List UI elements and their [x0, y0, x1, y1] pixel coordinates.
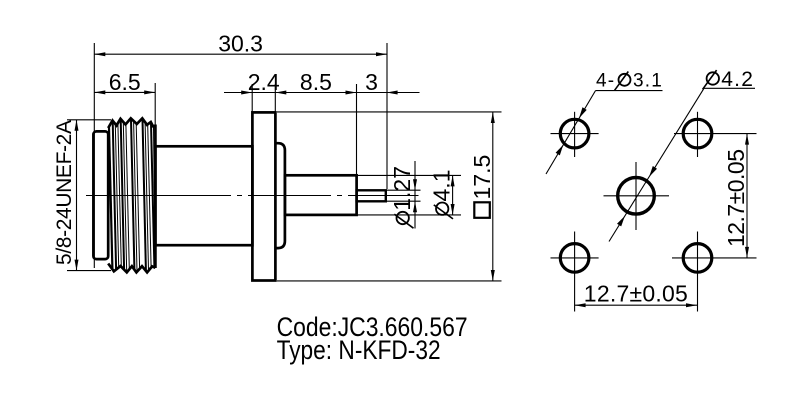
dimension 2.4 / 8.5 / 3 [224, 69, 420, 95]
label phi4.2 leader [609, 68, 755, 242]
svg-text:3: 3 [365, 69, 378, 95]
wire extension line x=387 [386, 43, 388, 189]
shoulder [275, 143, 285, 248]
node TL cross [551, 133, 599, 135]
dimension phi4.1 [357, 170, 461, 219]
dimension 6.5 [94, 69, 155, 95]
wire extension line x=275.3 [274, 84, 276, 112]
body cylinder [155, 146, 252, 245]
dimension square 17.5 [277, 112, 502, 281]
dimension 30.3 [94, 30, 387, 56]
node BR cross [672, 257, 757, 259]
svg-text:4-: 4- [596, 71, 615, 92]
centerline [86, 195, 419, 197]
wire extension line x=252.2 [251, 84, 253, 112]
flange front view: hole top-left [560, 119, 589, 148]
thread right edge [154, 125, 157, 269]
svg-text:8.5: 8.5 [300, 69, 332, 95]
svg-text:4.1: 4.1 [429, 170, 455, 202]
flange side view [252, 112, 275, 280]
svg-text:4.2: 4.2 [721, 68, 754, 91]
label 4-phi3.1 leader [546, 71, 663, 174]
hole bottom-left [560, 244, 589, 273]
thread profile bottom [108, 264, 155, 273]
nut cap [93, 131, 108, 259]
dimension phi1.27 [386, 161, 421, 229]
pin [357, 190, 386, 201]
svg-text:1.27: 1.27 [389, 166, 415, 211]
svg-text:12.7±0.05: 12.7±0.05 [584, 280, 688, 306]
hole center [618, 178, 655, 215]
thread profile top [108, 118, 155, 128]
svg-text:3.1: 3.1 [633, 71, 663, 92]
wire extension line x=94.3 [93, 43, 95, 268]
hole bottom-right [683, 244, 712, 273]
node TR cross [674, 133, 757, 135]
svg-text:12.7±0.05: 12.7±0.05 [723, 149, 749, 247]
dimension 12.7 horizontal [575, 280, 697, 307]
svg-text:30.3: 30.3 [218, 30, 263, 56]
svg-text:2.4: 2.4 [248, 69, 280, 95]
thread face hatch [109, 119, 155, 272]
inner conductor cylinder [285, 175, 357, 215]
hole top-right [683, 119, 712, 148]
dimension 12.7 vertical [723, 134, 749, 258]
wire extension line x=356.5 [356, 84, 358, 176]
dimension 5/8-24UNEF-2A [53, 120, 111, 271]
node center cross [604, 195, 670, 197]
svg-text:6.5: 6.5 [109, 69, 141, 95]
wire extension line x=155.2 [154, 83, 156, 146]
svg-text:5/8-24UNEF-2A: 5/8-24UNEF-2A [53, 120, 76, 265]
node BL cross [551, 257, 599, 259]
svg-text:17.5: 17.5 [469, 155, 495, 200]
svg-text:Type: N-KFD-32: Type: N-KFD-32 [277, 335, 441, 365]
